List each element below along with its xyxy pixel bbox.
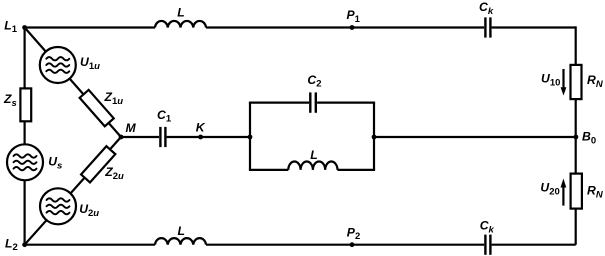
impedance Z2u <box>81 146 115 182</box>
resistor RN bottom <box>571 174 582 209</box>
wire bottom bus middle segment <box>206 244 484 246</box>
wire top bus left segment <box>25 26 155 28</box>
wire top bus middle segment <box>206 26 484 28</box>
node tank left junction <box>248 135 253 140</box>
svg-text:K: K <box>196 121 206 135</box>
tank right edge wire <box>373 103 375 170</box>
node K <box>198 135 203 140</box>
wire diagonal L1 to M <box>25 28 121 138</box>
wire right vertical <box>575 26 577 244</box>
inductor L bottom bus <box>155 238 206 245</box>
wire C1 to tank <box>167 136 250 138</box>
svg-text:L: L <box>177 6 184 20</box>
wire left vertical <box>24 28 26 245</box>
source U2u <box>40 188 76 224</box>
wire bottom bus right segment <box>492 244 576 246</box>
node tank right junction <box>372 135 377 140</box>
wire top bus right segment <box>492 26 576 28</box>
node L2 <box>22 242 27 247</box>
svg-text:M: M <box>126 121 137 135</box>
wire tank to B0 <box>374 136 576 138</box>
svg-text:L: L <box>178 224 185 238</box>
node P1 <box>350 25 355 30</box>
arrow U10 <box>561 69 567 96</box>
inductor L top bus <box>155 21 206 28</box>
wire diagonal L2 to M <box>25 137 121 245</box>
capacitor Ck bottom <box>485 235 490 255</box>
arrow U20 <box>561 179 567 206</box>
impedance Z1u <box>80 90 114 126</box>
inductor L tank <box>288 162 337 170</box>
wire M to C1 <box>121 136 159 138</box>
source U1u <box>40 47 76 83</box>
wire bottom bus left segment <box>25 244 155 246</box>
node L1 <box>22 25 27 30</box>
node M <box>119 135 124 140</box>
tank left edge wire <box>249 103 251 170</box>
svg-text:L: L <box>310 148 317 162</box>
resistor RN top <box>571 65 582 99</box>
tank top edge wire <box>249 101 375 103</box>
source Us <box>7 144 43 180</box>
node P2 <box>350 242 355 247</box>
node B0 <box>574 135 579 140</box>
capacitor C2 <box>310 92 316 112</box>
tank bottom edge wire <box>249 169 375 171</box>
capacitor Ck top <box>485 17 490 37</box>
capacitor C1 <box>160 127 165 147</box>
impedance Zs <box>20 88 31 121</box>
